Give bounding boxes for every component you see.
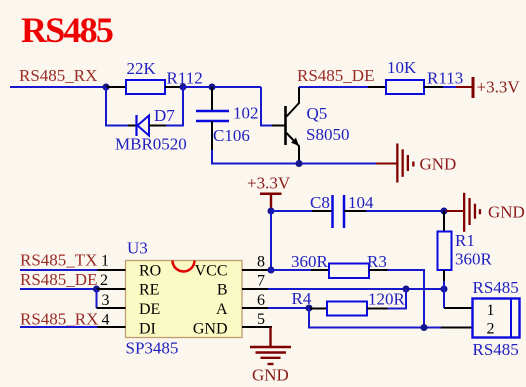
node junction pin2 line bbox=[421, 324, 428, 331]
node junction +3.3V mid bbox=[268, 208, 275, 215]
wire base feed to Q5 bbox=[261, 87, 272, 126]
svg-text:104: 104 bbox=[348, 193, 374, 212]
svg-text:360R: 360R bbox=[455, 250, 493, 269]
label C106 bbox=[213, 126, 250, 145]
svg-text:RS485: RS485 bbox=[21, 10, 113, 50]
pin number 2 bbox=[100, 272, 108, 289]
svg-text:D7: D7 bbox=[154, 106, 175, 125]
svg-text:B: B bbox=[217, 281, 228, 298]
pin number 5 bbox=[257, 311, 265, 328]
wire B down to connector pin1 bbox=[443, 289, 445, 308]
svg-text:3: 3 bbox=[102, 292, 110, 309]
svg-text:1: 1 bbox=[487, 302, 495, 319]
pin number 6 bbox=[257, 292, 265, 309]
pin name B bbox=[217, 281, 228, 298]
title RS485 bbox=[21, 10, 113, 50]
label R3 bbox=[367, 252, 387, 271]
label R112 bbox=[167, 69, 203, 88]
svg-text:GND: GND bbox=[252, 366, 289, 385]
wire R4 right up to B bbox=[388, 289, 407, 309]
wire diode branch bbox=[106, 87, 183, 126]
ground GND right of C8 bbox=[446, 193, 525, 232]
svg-text:102: 102 bbox=[233, 104, 259, 123]
label GND below U3 bbox=[252, 366, 289, 385]
svg-text:2: 2 bbox=[100, 272, 108, 289]
svg-text:1: 1 bbox=[101, 252, 109, 269]
resistor R112 bbox=[106, 80, 183, 94]
svg-text:8: 8 bbox=[257, 254, 265, 271]
connector pin number 2 bbox=[487, 321, 495, 338]
pin 1 lead bbox=[98, 269, 126, 271]
svg-text:+3.3V: +3.3V bbox=[477, 78, 521, 97]
net label RS485_RX left bbox=[20, 309, 98, 328]
diode D7 bbox=[128, 115, 166, 136]
svg-text:A: A bbox=[216, 301, 228, 318]
pin name A bbox=[216, 301, 228, 318]
svg-text:SP3485: SP3485 bbox=[126, 338, 179, 357]
wire RS485_TX bbox=[20, 269, 98, 271]
node junction DE bbox=[93, 286, 100, 293]
label R4 bbox=[292, 289, 312, 308]
pin name RE bbox=[139, 281, 159, 298]
svg-text:VCC: VCC bbox=[195, 262, 228, 279]
svg-text:R1: R1 bbox=[455, 231, 475, 250]
wire pin8 to R3 bbox=[268, 269, 311, 271]
connector pin 2 lead bbox=[441, 327, 473, 329]
wire +3.3V to C8 bbox=[271, 210, 312, 212]
svg-text:6: 6 bbox=[257, 292, 265, 309]
label R1 bbox=[455, 231, 475, 250]
pin 2 lead bbox=[97, 288, 126, 290]
svg-text:GND: GND bbox=[420, 155, 457, 174]
label U3 bbox=[127, 238, 148, 257]
op-amp U3 SP3485 body bbox=[126, 261, 243, 338]
svg-text:MBR0520: MBR0520 bbox=[115, 135, 187, 154]
net label RS485_TX bbox=[20, 250, 97, 269]
svg-text:22K: 22K bbox=[127, 59, 157, 78]
label 22K bbox=[127, 59, 157, 78]
svg-text:R113: R113 bbox=[427, 69, 463, 88]
pin 6 lead bbox=[242, 307, 268, 309]
wire A down and right to connector pin2 bbox=[309, 308, 441, 328]
node junction C106 top bbox=[209, 84, 216, 91]
node junction left of R112 bbox=[103, 84, 110, 91]
wire R3 right and down bbox=[388, 270, 425, 328]
net label RS485_RX bbox=[19, 66, 97, 85]
pin name DE bbox=[139, 301, 160, 318]
capacitor C106 bbox=[196, 87, 229, 150]
label 360R for R3 bbox=[291, 252, 329, 271]
svg-text:RS485_DE: RS485_DE bbox=[20, 270, 97, 289]
transistor Q5 bbox=[272, 87, 299, 163]
pin 5 lead bbox=[242, 326, 272, 328]
svg-text:RS485_RX: RS485_RX bbox=[20, 309, 98, 328]
label S8050 bbox=[306, 125, 349, 144]
notch arc on U3 bbox=[173, 261, 195, 272]
svg-text:RS485: RS485 bbox=[473, 340, 519, 359]
label RS485 connector bottom bbox=[473, 340, 519, 359]
svg-text:+3.3V: +3.3V bbox=[247, 173, 291, 192]
resistor R4 bbox=[309, 302, 388, 316]
svg-text:5: 5 bbox=[257, 311, 265, 328]
resistor R113 bbox=[368, 80, 443, 94]
wire pin5 down to ground bbox=[269, 327, 271, 347]
svg-text:GND: GND bbox=[193, 321, 228, 338]
pin name GND bbox=[193, 321, 228, 338]
label Q5 bbox=[307, 104, 328, 123]
pin name RO bbox=[139, 262, 161, 279]
label 102 bbox=[233, 104, 259, 123]
label R113 bbox=[427, 69, 463, 88]
wire RS485_RX bottom bbox=[20, 326, 98, 328]
node junction R1 top bbox=[441, 208, 448, 215]
wire RS485_DE bbox=[20, 288, 97, 290]
node junction R4 top bbox=[403, 286, 410, 293]
svg-text:U3: U3 bbox=[127, 238, 148, 257]
svg-text:RS485: RS485 bbox=[473, 278, 519, 297]
svg-text:120R: 120R bbox=[368, 290, 406, 309]
wire A row bbox=[268, 307, 309, 309]
svg-text:RE: RE bbox=[139, 281, 159, 298]
pin 4 lead bbox=[98, 326, 126, 328]
power +3.3V middle bbox=[247, 173, 291, 209]
label 360R vertical resistor bbox=[455, 250, 493, 269]
pin 7 lead bbox=[242, 288, 268, 290]
connector pin 1 lead bbox=[444, 307, 473, 309]
pin number 7 bbox=[257, 273, 265, 290]
svg-text:RS485_DE: RS485_DE bbox=[297, 66, 374, 85]
svg-text:S8050: S8050 bbox=[306, 125, 349, 144]
pin 3 lead bbox=[97, 307, 126, 309]
label MBR0520 bbox=[115, 135, 187, 154]
net label RS485_DE top bbox=[297, 66, 374, 85]
svg-text:4: 4 bbox=[102, 311, 110, 328]
wire +3.3V down to pin 8 bbox=[270, 211, 272, 270]
label 104 bbox=[348, 193, 374, 212]
wire collector to R113 bbox=[299, 86, 368, 88]
wire C106 bottom to GND rail bbox=[212, 150, 376, 164]
wire R1 bottom blue bbox=[443, 281, 445, 289]
svg-text:R4: R4 bbox=[292, 289, 312, 308]
power +3.3V top right bbox=[456, 77, 520, 98]
pin name DI bbox=[139, 321, 156, 338]
svg-text:Q5: Q5 bbox=[307, 104, 328, 123]
wire C8 to GND junction bbox=[366, 210, 444, 212]
svg-text:DI: DI bbox=[139, 321, 156, 338]
node junction A bbox=[306, 305, 313, 312]
wire DE jumper down bbox=[96, 289, 98, 308]
ground GND emitter rail bbox=[376, 144, 456, 183]
connector pin number 1 bbox=[487, 302, 495, 319]
pin number 4 bbox=[102, 311, 110, 328]
resistor R1 bbox=[438, 211, 452, 281]
node junction pin 8 bbox=[268, 267, 275, 274]
wire B row bbox=[268, 288, 444, 290]
pin name VCC bbox=[195, 262, 228, 279]
wire R113 to +3.3V bbox=[443, 86, 456, 88]
svg-text:C106: C106 bbox=[213, 126, 250, 145]
svg-text:360R: 360R bbox=[291, 252, 329, 271]
capacitor C8 bbox=[312, 195, 366, 228]
net label RS485_DE left bbox=[20, 270, 97, 289]
connector RS485 bbox=[473, 299, 520, 338]
ground earth below U3 bbox=[250, 347, 291, 364]
svg-text:RS485_TX: RS485_TX bbox=[20, 250, 97, 269]
node junction emitter on GND rail bbox=[296, 160, 303, 167]
node junction R1 bottom bbox=[441, 286, 448, 293]
label RS485 connector top bbox=[473, 278, 519, 297]
label 10K bbox=[387, 58, 417, 77]
pin number 8 bbox=[257, 254, 265, 271]
svg-text:RO: RO bbox=[139, 262, 161, 279]
wire top to capacitor C106 bbox=[183, 86, 261, 88]
svg-text:C8: C8 bbox=[310, 193, 330, 212]
label D7 bbox=[154, 106, 175, 125]
pin 8 lead bbox=[242, 269, 268, 271]
label 120R bbox=[368, 290, 406, 309]
label SP3485 bbox=[126, 338, 179, 357]
svg-text:10K: 10K bbox=[387, 58, 417, 77]
svg-text:2: 2 bbox=[487, 321, 495, 338]
resistor R3 bbox=[311, 264, 388, 279]
svg-text:GND: GND bbox=[488, 203, 525, 222]
label C8 bbox=[310, 193, 330, 212]
pin number 3 bbox=[102, 292, 110, 309]
wire RS485_RX horizontal bbox=[10, 86, 106, 88]
svg-text:R3: R3 bbox=[367, 252, 387, 271]
pin number 1 bbox=[101, 252, 109, 269]
svg-text:DE: DE bbox=[139, 301, 160, 318]
svg-text:7: 7 bbox=[257, 273, 265, 290]
node junction right of R112 bbox=[180, 84, 187, 91]
svg-text:RS485_RX: RS485_RX bbox=[19, 66, 97, 85]
